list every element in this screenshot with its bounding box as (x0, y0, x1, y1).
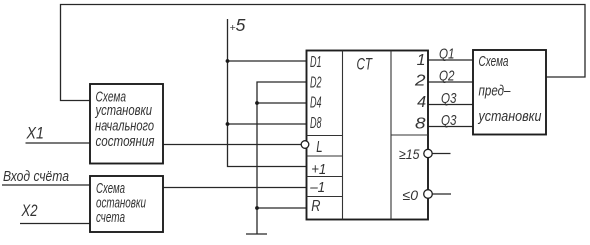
svg-text:Q3: Q3 (441, 113, 457, 129)
svg-text:счета: счета (96, 209, 125, 226)
svg-text:Схема: Схема (479, 53, 509, 70)
svg-text:1: 1 (417, 52, 426, 69)
svg-text:8: 8 (415, 116, 426, 133)
svg-text:Q3: Q3 (441, 91, 457, 107)
svg-text:≤0: ≤0 (403, 187, 419, 203)
svg-text:2: 2 (414, 72, 426, 89)
svg-text:установки: установки (478, 108, 542, 125)
svg-text:Q1: Q1 (439, 47, 455, 63)
svg-text:4: 4 (417, 94, 426, 111)
svg-text:начального: начального (95, 118, 154, 135)
svg-text:D2: D2 (310, 74, 322, 91)
svg-text:D8: D8 (310, 115, 322, 132)
svg-text:X2: X2 (21, 201, 38, 220)
svg-text:X1: X1 (26, 124, 44, 143)
svg-text:Вход счёта: Вход счёта (3, 169, 69, 185)
svg-text:установки: установки (95, 102, 153, 119)
svg-text:Q2: Q2 (439, 69, 455, 85)
svg-text:≥15: ≥15 (399, 146, 420, 162)
svg-text:D1: D1 (310, 54, 322, 71)
svg-text:пред–: пред– (479, 83, 512, 100)
svg-text:состояния: состояния (96, 133, 155, 150)
svg-text:CT: CT (357, 56, 374, 74)
svg-text:L: L (316, 139, 322, 156)
svg-text:–1: –1 (309, 179, 325, 196)
svg-text:+1: +1 (311, 161, 326, 178)
svg-text:D4: D4 (310, 95, 322, 112)
svg-text:R: R (311, 198, 320, 215)
